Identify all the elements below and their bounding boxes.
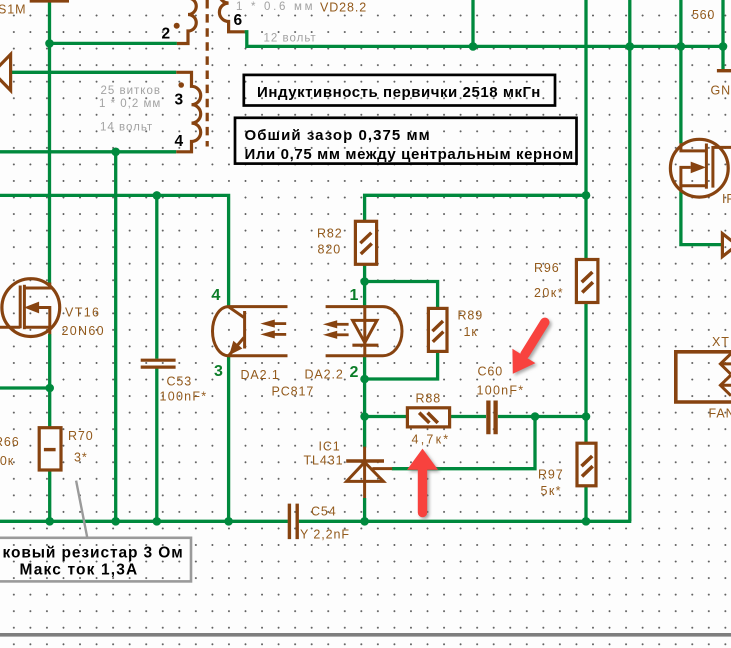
svg-text:ковый резистар 3 Ом: ковый резистар 3 Ом xyxy=(3,545,184,562)
svg-text:IR: IR xyxy=(722,192,731,206)
mosfet VT16 bulk arrow xyxy=(38,308,50,328)
optocoupler DA2.2 light arrows xyxy=(325,321,349,338)
junction x586 y195.3 xyxy=(582,191,591,200)
svg-text:1 * 0,2 мм: 1 * 0,2 мм xyxy=(99,98,161,110)
wire opto pin2 to TL431 cathode xyxy=(363,356,366,448)
svg-text:DA2.2: DA2.2 xyxy=(305,368,344,382)
wire gnd stub xyxy=(721,0,724,70)
resistor R88 horizontal xyxy=(407,408,449,427)
wire R88 to C60 xyxy=(450,415,486,418)
svg-text:25 витков: 25 витков xyxy=(101,85,161,97)
optocoupler DA2.2 body xyxy=(326,307,402,356)
svg-text:VT16: VT16 xyxy=(65,306,100,320)
svg-text:4,7к*: 4,7к* xyxy=(412,433,451,447)
svg-text:2: 2 xyxy=(162,26,171,43)
sheet border bottom grey line xyxy=(0,633,731,637)
junction x115.7 y521.3 xyxy=(111,517,120,526)
svg-text:1к: 1к xyxy=(464,325,478,339)
svg-text:100nF*: 100nF* xyxy=(160,390,208,404)
connector XT pin b xyxy=(720,375,731,396)
svg-text:R97: R97 xyxy=(538,468,564,482)
wire bottom rail left of C54 xyxy=(0,520,288,523)
junction x115.7 y151.8 xyxy=(111,148,120,157)
wire to transformer pin 2 xyxy=(50,42,177,45)
wire R96 to R97 xyxy=(584,302,587,443)
connector XT body xyxy=(676,352,731,402)
svg-text:PC817: PC817 xyxy=(272,385,315,399)
junction x156.8 y521.3 xyxy=(153,517,162,526)
connector XT pin a xyxy=(720,354,731,375)
wire right mosfet source to diode xyxy=(681,191,722,244)
wire bottom rail right of C54 xyxy=(299,520,632,523)
wire top stub x473 xyxy=(471,0,474,46)
junction x364.6 y416.5 xyxy=(360,412,369,421)
junction x156.8 y195.4 xyxy=(153,191,162,200)
wire R97 to bottom rail xyxy=(584,486,587,522)
svg-text:IC1: IC1 xyxy=(319,440,341,454)
note box inductance xyxy=(244,75,555,106)
gnd symbol bar xyxy=(717,69,731,72)
diode D left edge xyxy=(0,54,11,90)
wire R96 upper vertical xyxy=(584,0,587,260)
svg-text:6: 6 xyxy=(234,12,243,29)
svg-text:XT: XT xyxy=(712,335,730,349)
junction x680.9 y46.4 xyxy=(677,42,686,51)
capacitor C60 plates xyxy=(488,401,495,435)
svg-text:3*: 3* xyxy=(74,451,88,465)
svg-text:FAN: FAN xyxy=(709,407,731,421)
svg-text:VD28.2: VD28.2 xyxy=(320,1,367,15)
transformer T winding 3-4 xyxy=(176,72,201,152)
svg-text:4: 4 xyxy=(212,287,221,304)
wire C53 vertical lower xyxy=(155,368,158,521)
wire R89 top branch xyxy=(365,282,438,309)
svg-text:560: 560 xyxy=(692,8,715,22)
mosfet right body xyxy=(670,139,728,197)
svg-text:DA2.1: DA2.1 xyxy=(241,368,280,382)
wire R82 to opto pin1 xyxy=(363,264,366,307)
resistor R82 xyxy=(355,221,376,264)
junction x586 y521.3 xyxy=(582,517,591,526)
mosfet VT16 source xyxy=(24,327,49,334)
junction x473 y46.4 xyxy=(469,42,478,51)
svg-text:Индуктивность первички 2518 мк: Индуктивность первички 2518 мкГн xyxy=(257,84,541,101)
svg-text:S1M: S1M xyxy=(0,3,26,17)
svg-text:Обший зазор 0,375 мм: Обший зазор 0,375 мм xyxy=(245,127,431,144)
wire opto pin3 down xyxy=(227,356,230,521)
svg-text:Или 0,75 мм между центральным: Или 0,75 мм между центральным керном xyxy=(245,146,574,163)
red arrow pointing at C60 xyxy=(512,322,544,374)
wire R70 to bottom rail xyxy=(48,470,51,521)
diode cathode bar cut at top xyxy=(30,0,69,3)
svg-text:Макс ток 1,3А: Макс ток 1,3А xyxy=(20,562,139,579)
junction x629.8 y46.4 xyxy=(626,42,635,51)
svg-text:1 * 0.6 мм: 1 * 0.6 мм xyxy=(236,1,315,13)
transformer polarity dot pin2 xyxy=(174,23,180,29)
junction x364.6 y521.3 xyxy=(360,517,369,526)
svg-text:5к*: 5к* xyxy=(541,484,562,498)
red arrow pointing at R88 xyxy=(407,449,438,513)
wire 14V vertical x115.7 xyxy=(114,152,117,522)
svg-text:100nF*: 100nF* xyxy=(477,384,525,398)
mosfet right bulk arrow xyxy=(681,167,691,185)
wire mid rail to opto pin4 xyxy=(0,195,229,306)
optocoupler DA2.1 phototransistor xyxy=(229,307,245,356)
svg-text:20N60: 20N60 xyxy=(62,324,105,338)
junction x535 y416.5 xyxy=(531,412,540,421)
mosfet VT16 channel bar xyxy=(23,285,26,329)
transformer T winding pin 6 xyxy=(219,0,244,32)
mosfet right gate bar xyxy=(711,146,714,188)
wire 12V rail from pin 6 xyxy=(245,32,723,47)
transformer polarity dot pin3 xyxy=(178,82,184,88)
svg-text:2: 2 xyxy=(350,364,359,381)
mosfet VT16 gate bar xyxy=(19,286,22,329)
transformer T winding 1-2 xyxy=(177,0,196,44)
wire right return vertical x629.8 xyxy=(628,0,631,521)
wire R88 left xyxy=(365,415,408,418)
svg-text:C60: C60 xyxy=(478,365,504,379)
wire mid rail right to R82 xyxy=(365,195,586,221)
callout box resistor note xyxy=(0,481,191,582)
svg-text:R70: R70 xyxy=(68,429,94,443)
junction x723 y46.4 xyxy=(719,42,728,51)
svg-text:R88: R88 xyxy=(416,392,442,406)
svg-text:4: 4 xyxy=(175,133,184,150)
svg-text:20к*: 20к* xyxy=(534,286,564,300)
mosfet VT16 drain xyxy=(24,283,49,289)
mosfet VT16 body xyxy=(2,279,60,337)
shunt reference IC1 TL431 xyxy=(346,447,392,498)
mosfet right gate pin xyxy=(713,146,731,149)
resistor R96 xyxy=(576,260,598,303)
wire TL431 ref branch xyxy=(392,417,535,469)
svg-text:3: 3 xyxy=(175,92,184,109)
junction x228.6 y521.3 xyxy=(224,517,233,526)
optocoupler DA2.1 body xyxy=(213,307,288,356)
svg-text:10к: 10к xyxy=(0,454,14,468)
junction x364.6 y281.5 xyxy=(360,277,369,286)
wire mosfet source to R70 xyxy=(48,334,51,428)
mosfet VT16 gate pin xyxy=(0,326,20,329)
wire C53 vertical upper xyxy=(155,195,158,358)
svg-text:12 вольт: 12 вольт xyxy=(264,33,317,45)
svg-text:R82: R82 xyxy=(317,227,343,241)
svg-text:1: 1 xyxy=(350,287,359,304)
svg-text:Y 2,2nF: Y 2,2nF xyxy=(300,528,350,542)
svg-text:TL431: TL431 xyxy=(304,454,344,468)
note box gap xyxy=(235,118,577,164)
junction x49.5 y43.4 xyxy=(45,39,54,48)
svg-text:GND: GND xyxy=(711,84,731,98)
wire source node horizontal xyxy=(0,386,50,389)
junction x49.7 y521.3 xyxy=(45,517,54,526)
svg-text:C54: C54 xyxy=(311,505,337,519)
optocoupler DA2.1 light arrows xyxy=(262,320,286,338)
wire diode to transformer pin 3 xyxy=(11,71,177,74)
resistor R70 xyxy=(39,428,61,470)
capacitor C54 plates xyxy=(289,504,297,539)
junction x49.7 y388 xyxy=(45,384,54,393)
mosfet right source xyxy=(681,186,707,192)
capacitor C53 plates xyxy=(141,360,176,367)
wire right mosfet drain xyxy=(679,0,682,143)
wire TL431 anode to bottom rail xyxy=(363,498,366,521)
diode right edge xyxy=(722,234,731,257)
optocoupler DA2.2 LED xyxy=(352,307,378,356)
transformer core dashed xyxy=(206,0,209,147)
junction x586 y416.5 xyxy=(582,412,591,421)
junction x364.6 y379 xyxy=(360,375,369,384)
mosfet right channel bar xyxy=(705,144,708,189)
svg-text:3: 3 xyxy=(214,363,223,380)
wire transformer pin 4 rail xyxy=(0,150,176,153)
resistor R89 xyxy=(428,308,447,351)
wire C60 to R97 node xyxy=(498,415,586,418)
svg-text:C53: C53 xyxy=(167,375,193,389)
svg-text:R96: R96 xyxy=(534,261,560,275)
svg-text:820: 820 xyxy=(318,243,342,257)
svg-text:14 вольт: 14 вольт xyxy=(100,122,153,134)
mosfet right drain xyxy=(681,143,707,151)
wire R89 bottom branch xyxy=(365,351,438,379)
resistor R97 xyxy=(577,443,596,486)
wire primary drain vertical xyxy=(48,2,51,284)
svg-text:R66: R66 xyxy=(0,435,20,449)
svg-text:R89: R89 xyxy=(458,309,484,323)
